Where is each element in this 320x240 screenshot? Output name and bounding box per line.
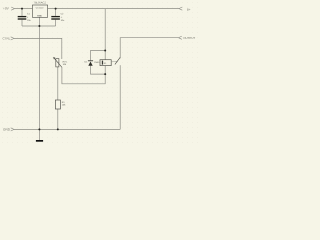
svg-text:B+: B+ [187,7,191,11]
wire B+ vertical from top rail to coil [104,9,106,60]
wire regulator output to 5V terminal [48,8,179,10]
wire diode branch bottom [91,66,106,74]
svg-text:GND: GND [3,128,11,132]
wire relay switch bottom to ground rail [119,65,121,129]
wire CTRL terminal to corner [14,38,62,59]
terminal B+ [179,7,191,11]
relay coil K1 [100,60,111,66]
diode D1 [85,60,103,65]
svg-text:+9V: +9V [3,7,10,11]
resistor R1 [55,100,66,109]
junction at C2 [55,8,57,10]
junction at coil bottom [104,73,106,75]
wire diode branch top [91,51,106,61]
wire bottom ground rail [14,128,120,130]
junction at C1 [21,8,23,10]
junction at ground symbol [38,128,40,130]
wire C1 bottom lead [21,20,23,26]
wire C2 bottom lead [55,20,57,26]
regulator U1 78L05ACZ [32,1,47,17]
terminal GND [3,128,14,132]
svg-text:VIN VOUT: VIN VOUT [36,6,44,9]
wire regulator GND pin [38,17,40,26]
junction at diode top [104,50,106,52]
svg-text:78L05ACZ: 78L05ACZ [34,1,47,4]
wire ground rail under regulator [22,25,56,27]
wire potentiometer to resistor R1 [57,67,59,100]
ground [36,129,43,141]
wire coil bottom stub [104,66,106,75]
wire pot wiper to relay coil bottom node [62,67,105,84]
relay switch K1 contacts [111,57,120,64]
junction at resistor bottom [57,128,59,130]
potentiometer RV1 [53,57,67,67]
terminal CTRL [3,37,15,41]
capacitor C2 [51,13,65,22]
wire C2 top lead [55,9,57,16]
svg-text:CTRL: CTRL [3,37,11,41]
junction at regulator GND [38,25,40,27]
wire C1 top lead [21,9,23,16]
wire resistor to ground rail [57,109,59,129]
capacitor C1 [18,13,32,22]
wire input from +9V terminal to regulator [15,8,33,10]
wire main ground vertical [38,26,40,129]
svg-text:OUTPUT: OUTPUT [183,36,195,40]
svg-text:GND: GND [37,14,42,17]
wire relay switch to OUTPUT terminal [120,38,178,59]
terminal +9V [3,7,15,11]
terminal OUTPUT [179,36,196,40]
